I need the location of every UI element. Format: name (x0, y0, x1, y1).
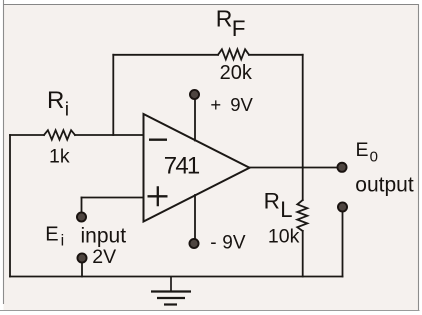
wire: op-amp noninverting input (82, 197, 144, 199)
wire: lower input terminal down to bottom rail (81, 263, 83, 277)
svg-text:2V: 2V (92, 246, 116, 268)
svg-text:20k: 20k (220, 62, 253, 84)
label -9V (210, 232, 246, 253)
svg-text:1k: 1k (49, 146, 70, 168)
svg-text:10k: 10k (268, 226, 300, 248)
wire: noninverting input down to upper input terminal (81, 198, 83, 213)
node: +9V supply terminal dot (190, 90, 199, 99)
ground (151, 277, 191, 305)
svg-text:R: R (216, 6, 233, 32)
svg-text:R: R (264, 189, 280, 214)
node: lower input terminal dot (77, 253, 86, 262)
label RL (264, 189, 293, 223)
node: output terminal E0 dot (337, 163, 346, 172)
wire: left vertical from Ri input down to bottom rail (9, 135, 11, 277)
op-amp noninverting pin plus symbol (148, 186, 168, 206)
svg-text:9V: 9V (222, 232, 246, 253)
svg-text:-: - (210, 232, 216, 253)
node: -9V supply terminal dot (189, 239, 198, 248)
svg-text:741: 741 (164, 153, 200, 180)
svg-text:+: + (210, 94, 221, 115)
svg-text:i: i (65, 99, 69, 121)
wire: feedback right vertical down to output node (302, 55, 304, 168)
label RF (216, 6, 246, 41)
wire: RL bottom lead to bottom rail (302, 231, 304, 277)
resistor Ri (44, 130, 75, 139)
wire: input lead to Ri (10, 134, 44, 136)
node: lower output terminal dot (338, 202, 347, 211)
resistor RF (218, 49, 249, 59)
svg-text:R: R (47, 87, 64, 114)
node: upper input terminal dot (77, 212, 86, 221)
wire: feedback left vertical (112, 55, 114, 135)
svg-text:E: E (45, 223, 58, 245)
label E0 (356, 139, 378, 166)
wire: Ri to op-amp inverting input (node A) (75, 134, 144, 136)
wire: lower output terminal to bottom rail (342, 212, 344, 277)
label +9V (210, 94, 253, 115)
label Ei (45, 223, 64, 249)
wire: op-amp output to terminal E0 (250, 167, 343, 169)
svg-text:F: F (232, 16, 246, 41)
wire: RF to feedback right corner (249, 54, 303, 56)
svg-text:i: i (61, 233, 65, 250)
svg-text:9V: 9V (230, 94, 253, 115)
wire: RL top lead (302, 168, 304, 201)
label Ri (47, 87, 69, 121)
svg-text:E: E (356, 139, 369, 161)
wire: feedback top lead to RF (113, 54, 218, 56)
svg-text:input: input (81, 225, 127, 248)
op-amp inverting pin minus symbol (149, 139, 167, 141)
svg-text:output: output (355, 174, 414, 197)
resistor RL (297, 200, 307, 231)
wire: bottom rail (10, 276, 343, 278)
wire: -9V supply lead (194, 195, 196, 239)
svg-text:L: L (280, 197, 292, 222)
wire: +9V supply lead (194, 100, 196, 141)
svg-text:0: 0 (370, 149, 378, 166)
op-amp U1 (741) (144, 114, 250, 222)
